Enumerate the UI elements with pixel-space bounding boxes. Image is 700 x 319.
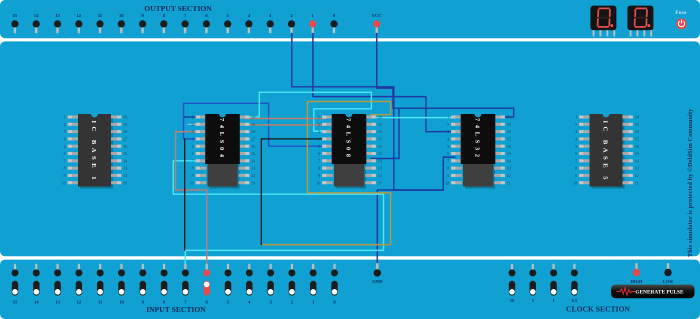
svg-text:4: 4 — [575, 137, 577, 142]
seven-segment display DS1 (digit 0.) — [590, 6, 616, 37]
svg-text:5: 5 — [575, 144, 577, 149]
svg-text:10: 10 — [62, 180, 66, 185]
svg-text:3: 3 — [447, 129, 449, 134]
svg-text:11: 11 — [123, 180, 127, 185]
board panel: output section — [0, 0, 700, 38]
svg-text:4: 4 — [64, 137, 66, 142]
svg-text:2: 2 — [318, 122, 320, 127]
svg-text:6: 6 — [318, 151, 320, 156]
input switch 3 — [267, 264, 274, 305]
board panel: main circuit area — [0, 41, 700, 256]
output pin 1 (LED lit) — [309, 13, 316, 33]
label OUTPUT SECTION — [144, 4, 212, 13]
input switch 11 — [97, 264, 104, 305]
power button — [676, 18, 687, 29]
watermark: This simulator is protected by DeldSim Community — [687, 108, 694, 257]
svg-text:11: 11 — [635, 180, 639, 185]
svg-text:18: 18 — [378, 129, 382, 134]
wire N2: output 1 to U4 74LS32 pin 3 — [313, 34, 455, 132]
svg-text:12: 12 — [77, 299, 82, 304]
output pin 12 — [75, 13, 82, 33]
svg-text:2: 2 — [64, 122, 66, 127]
wire P1: pale stub into U2 74LS04 pin 2 — [188, 123, 199, 125]
svg-text:OUTPUT SECTION: OUTPUT SECTION — [144, 4, 212, 13]
svg-text:14: 14 — [123, 158, 127, 163]
VCC pin — [372, 13, 382, 33]
IC U2 74LS04 hex inverter — [190, 114, 256, 189]
wire N4: U2 74LS04 pin 4 to U3 74LS08 pin 5 — [184, 103, 327, 146]
svg-text:Fuse: Fuse — [675, 11, 687, 16]
output pin 8 — [160, 13, 167, 33]
svg-text:20: 20 — [378, 115, 382, 120]
svg-text:10: 10 — [119, 13, 124, 18]
svg-text:11: 11 — [251, 180, 255, 185]
svg-text:4: 4 — [192, 137, 194, 142]
svg-text:19: 19 — [123, 122, 127, 127]
input switch 13 — [54, 264, 61, 305]
IC socket U5 IC BASE 5 — [573, 114, 639, 189]
svg-text:2: 2 — [192, 122, 194, 127]
svg-text:9: 9 — [447, 173, 449, 178]
svg-text:1: 1 — [318, 115, 320, 120]
input switch 14 — [33, 264, 40, 305]
svg-text:8: 8 — [575, 166, 577, 171]
svg-text:7: 7 — [575, 158, 577, 163]
svg-text:HIGH: HIGH — [631, 279, 644, 284]
svg-text:6: 6 — [64, 151, 66, 156]
clock frequency switch 0.5 Hz — [571, 264, 578, 303]
wire N4a: stub into U2 74LS04 pin 1 — [185, 116, 200, 118]
wire C3: U3 74LS08 pin 20 to U4 74LS32 pin 1 — [371, 117, 455, 119]
output pin 13 — [54, 13, 61, 33]
svg-text:17: 17 — [507, 137, 511, 142]
svg-text:12: 12 — [77, 13, 82, 18]
svg-text:11: 11 — [98, 13, 103, 18]
svg-text:3: 3 — [64, 129, 66, 134]
svg-text:12: 12 — [123, 173, 127, 178]
wire B2: U2 74LS04 pin 4 down to input 7 junction — [184, 139, 186, 251]
svg-text:9: 9 — [192, 173, 194, 178]
input switch 12 — [75, 264, 82, 305]
input switch 6 (ON) — [203, 264, 210, 305]
svg-text:15: 15 — [13, 299, 18, 304]
svg-text:10: 10 — [445, 180, 449, 185]
svg-text:18: 18 — [123, 129, 127, 134]
svg-text:14: 14 — [378, 158, 382, 163]
svg-text:14: 14 — [251, 158, 255, 163]
svg-text:CLOCK SECTION: CLOCK SECTION — [566, 304, 630, 313]
output pin 3 — [267, 13, 274, 33]
input switch 4 — [246, 264, 253, 305]
svg-text:7: 7 — [64, 158, 66, 163]
svg-text:14: 14 — [635, 158, 639, 163]
wire N1: output 2 to U4 74LS32 pin 6 — [292, 34, 455, 191]
svg-text:11: 11 — [507, 180, 511, 185]
svg-text:LOW: LOW — [663, 279, 674, 284]
wire S2: U2 74LS04 pin 19 to U3 74LS08 pin 2 — [245, 124, 326, 126]
svg-text:12: 12 — [635, 173, 639, 178]
svg-text:4: 4 — [447, 137, 449, 142]
clock frequency switch 1 Hz — [550, 264, 557, 303]
GND pin — [372, 263, 383, 284]
svg-text:11: 11 — [378, 180, 382, 185]
GENERATE PULSE button — [611, 285, 695, 299]
input switch 7 — [182, 264, 189, 305]
input switch 15 — [12, 264, 19, 305]
label Fuse — [675, 11, 687, 16]
IC U3 74LS08 quad AND — [316, 114, 382, 189]
seven-segment display DS2 (digit 0.) — [627, 6, 653, 37]
wire S1: U2 74LS04 pin 20 to U3 74LS08 pin 1 — [245, 118, 326, 120]
svg-text:9: 9 — [318, 173, 320, 178]
output pin 15 — [11, 13, 18, 33]
svg-text:9: 9 — [575, 173, 577, 178]
IC U4 74LS32 quad OR — [445, 114, 511, 189]
svg-text:13: 13 — [251, 166, 255, 171]
svg-text:IC BASE 5: IC BASE 5 — [601, 121, 608, 181]
board panel: input/clock section — [0, 260, 700, 319]
HIGH pin — [631, 263, 644, 284]
svg-text:10: 10 — [119, 299, 124, 304]
label CLOCK SECTION — [566, 304, 630, 313]
svg-text:5: 5 — [64, 144, 66, 149]
svg-text:17: 17 — [123, 137, 127, 142]
svg-text:20: 20 — [251, 115, 255, 120]
output pin 11 — [96, 13, 103, 33]
svg-text:13: 13 — [123, 166, 127, 171]
output pin 14 — [33, 13, 40, 33]
svg-text:19: 19 — [378, 122, 382, 127]
svg-text:5: 5 — [192, 144, 194, 149]
svg-text:3: 3 — [575, 129, 577, 134]
svg-text:16: 16 — [507, 144, 511, 149]
svg-text:15: 15 — [13, 13, 18, 18]
svg-text:10: 10 — [190, 180, 194, 185]
output pin 5 — [224, 13, 231, 33]
svg-text:13: 13 — [507, 166, 511, 171]
svg-text:7: 7 — [447, 158, 449, 163]
svg-text:VCC: VCC — [372, 13, 382, 18]
svg-text:6: 6 — [575, 151, 577, 156]
svg-text:17: 17 — [635, 137, 639, 142]
svg-text:7: 7 — [318, 158, 320, 163]
clock frequency switch 10 Hz — [509, 264, 516, 303]
LOW pin — [663, 263, 674, 284]
svg-text:20: 20 — [123, 115, 127, 120]
svg-text:12: 12 — [251, 173, 255, 178]
label INPUT SECTION — [146, 305, 206, 314]
svg-text:6: 6 — [447, 151, 449, 156]
svg-text:20: 20 — [507, 115, 511, 120]
svg-text:15: 15 — [378, 151, 382, 156]
input switch 10 — [118, 264, 125, 305]
wire N3: VCC to U4 74LS32 pin 20 — [377, 34, 514, 118]
input switch 9 — [139, 264, 146, 305]
svg-text:3: 3 — [318, 129, 320, 134]
svg-text:13: 13 — [55, 299, 60, 304]
svg-text:9: 9 — [64, 173, 66, 178]
svg-text:GENERATE PULSE: GENERATE PULSE — [635, 290, 684, 296]
svg-text:1: 1 — [575, 115, 577, 120]
svg-text:15: 15 — [123, 151, 127, 156]
svg-text:5: 5 — [447, 144, 449, 149]
svg-text:16: 16 — [251, 144, 255, 149]
svg-text:13: 13 — [55, 13, 60, 18]
wire C1: U2 74LS04 pin 20 to U3 74LS08 pin 3 — [245, 92, 371, 131]
svg-text:GND: GND — [372, 279, 383, 284]
IC socket U1 IC BASE 1 — [62, 114, 128, 189]
svg-text:18: 18 — [507, 129, 511, 134]
svg-text:1: 1 — [447, 115, 449, 120]
input switch 8 — [161, 264, 168, 305]
svg-text:16: 16 — [123, 144, 127, 149]
clock frequency switch 5 Hz — [529, 264, 536, 303]
output pin 9 — [139, 13, 146, 33]
svg-text:0.5: 0.5 — [572, 298, 578, 303]
wire N5: GND wire to junction — [377, 190, 443, 264]
svg-text:10: 10 — [510, 298, 515, 303]
svg-text:1: 1 — [64, 115, 66, 120]
input switch 1 — [310, 264, 317, 305]
wire B1: U3 74LS08 pin 4 to lower junction — [261, 139, 326, 245]
wire O1: olive loop around U3 74LS08 to lower junction — [261, 102, 390, 245]
svg-text:18: 18 — [635, 129, 639, 134]
svg-text:7: 7 — [192, 158, 194, 163]
svg-text:16: 16 — [635, 144, 639, 149]
svg-text:12: 12 — [507, 173, 511, 178]
svg-text:4: 4 — [318, 137, 320, 142]
svg-text:INPUT SECTION: INPUT SECTION — [146, 305, 206, 314]
svg-text:5: 5 — [318, 144, 320, 149]
svg-text:10: 10 — [573, 180, 577, 185]
wire S3: U2 74LS04 pin 3 to input 6 — [176, 132, 207, 264]
svg-text:17: 17 — [251, 137, 255, 142]
svg-text:14: 14 — [34, 299, 39, 304]
svg-text:6: 6 — [192, 151, 194, 156]
svg-text:8: 8 — [318, 166, 320, 171]
svg-text:1: 1 — [192, 115, 194, 120]
svg-text:14: 14 — [507, 158, 511, 163]
svg-text:18: 18 — [251, 129, 255, 134]
svg-text:20: 20 — [635, 115, 639, 120]
svg-text:13: 13 — [635, 166, 639, 171]
svg-text:14: 14 — [34, 13, 39, 18]
svg-text:15: 15 — [251, 151, 255, 156]
output pin 4 — [245, 13, 252, 33]
svg-text:12: 12 — [378, 173, 382, 178]
svg-text:3: 3 — [192, 129, 194, 134]
output pin 0 — [330, 13, 337, 33]
svg-text:This simulator is protected by: This simulator is protected by ©DeldSim … — [687, 108, 694, 257]
svg-text:19: 19 — [507, 122, 511, 127]
svg-text:15: 15 — [635, 151, 639, 156]
svg-text:19: 19 — [635, 122, 639, 127]
svg-text:10: 10 — [316, 180, 320, 185]
output pin 6 — [203, 13, 210, 33]
wire C2: U2 74LS04 pin 7 to input 7 — [173, 161, 383, 264]
input switch 2 — [288, 264, 295, 305]
svg-text:13: 13 — [378, 166, 382, 171]
svg-text:16: 16 — [378, 144, 382, 149]
input switch 5 — [225, 264, 232, 305]
output pin 2 — [288, 13, 295, 33]
svg-text:2: 2 — [447, 122, 449, 127]
svg-text:8: 8 — [64, 166, 66, 171]
wire N3b: VCC branch to U3 74LS08 pin 14 — [371, 109, 399, 159]
svg-text:IC BASE 1: IC BASE 1 — [90, 121, 97, 180]
output pin 7 — [182, 13, 189, 33]
output pin 10 — [118, 13, 125, 33]
svg-text:17: 17 — [378, 137, 382, 142]
svg-text:8: 8 — [192, 166, 194, 171]
svg-text:2: 2 — [575, 122, 577, 127]
svg-text:8: 8 — [447, 166, 449, 171]
input switch 0 — [331, 264, 338, 305]
svg-text:15: 15 — [507, 151, 511, 156]
svg-text:19: 19 — [251, 122, 255, 127]
svg-text:11: 11 — [98, 299, 103, 304]
